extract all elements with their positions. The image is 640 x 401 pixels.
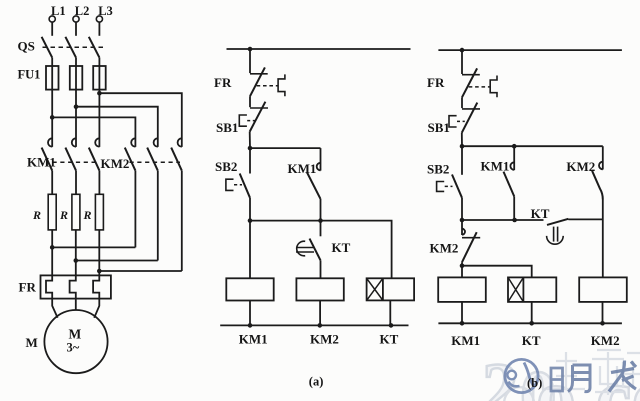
wire a SB2 to row xyxy=(249,198,251,221)
disconnect switch QS blade 3 xyxy=(89,37,100,58)
svg-text:KM2: KM2 xyxy=(430,241,459,256)
wire KM2 contact2 down xyxy=(157,171,159,261)
svg-text:(a): (a) xyxy=(309,374,324,388)
KT delayed-open contact (b) xyxy=(547,219,603,244)
wire b junction row xyxy=(462,219,544,221)
svg-text:KT: KT xyxy=(332,240,351,255)
node b-bus-1 xyxy=(460,321,465,326)
svg-text:KT: KT xyxy=(522,333,541,348)
node b-junction3 xyxy=(460,263,465,268)
fuse FU1 element 1 xyxy=(46,66,59,90)
node b-top xyxy=(460,48,465,53)
watermark gray hanzi ghosts xyxy=(547,350,640,395)
watermark blue hanzi chang xyxy=(609,361,636,392)
svg-text:R: R xyxy=(32,208,41,222)
node phase A branch xyxy=(50,115,55,120)
node resistor B bypass xyxy=(74,258,79,263)
wire b SB2 to row xyxy=(461,198,463,220)
wire KM2 contact3 down xyxy=(181,171,183,271)
terminal L1 xyxy=(49,4,65,22)
wire b KM1 coil to bus xyxy=(461,302,463,323)
start button SB2 NO (b) xyxy=(437,146,462,198)
svg-text:3~: 3~ xyxy=(67,341,80,355)
coil KM2 (a) xyxy=(296,278,343,300)
watermark gray zero bottom arc xyxy=(504,387,534,401)
node resistor A bypass xyxy=(50,245,55,250)
node a-bus-3 xyxy=(389,323,394,328)
node b-bus-3 xyxy=(600,321,605,326)
fuse FU1 element 2 xyxy=(70,66,83,90)
coil KT time relay (a) xyxy=(367,278,415,300)
svg-text:KM2: KM2 xyxy=(101,156,130,171)
section (b) top supply line xyxy=(438,49,622,51)
node b-seal-in top xyxy=(460,144,465,149)
KM2 auxiliary NO contact (b) xyxy=(592,146,603,199)
contactor KM1 main contact 1 xyxy=(42,138,53,170)
svg-text:(b): (b) xyxy=(527,376,542,390)
node b-row-km1 xyxy=(512,218,517,223)
contactor KM2 main contact 1 xyxy=(125,138,136,170)
svg-text:KM1: KM1 xyxy=(27,155,56,170)
coil KM1 (b) xyxy=(438,277,486,302)
section (b) bottom supply line xyxy=(438,322,622,324)
KM1 auxiliary NO contact (a) xyxy=(307,148,321,221)
KM2 linkage dashed line xyxy=(130,161,181,163)
wire branch A to KM2 contact 1 xyxy=(52,117,135,146)
svg-text:KM2: KM2 xyxy=(310,331,339,346)
wire b branch across to KM2 aux xyxy=(462,145,603,147)
stop button SB1 NC (b) xyxy=(449,103,480,133)
svg-text:M: M xyxy=(26,335,38,350)
svg-text:SB1: SB1 xyxy=(216,120,238,135)
FR heater phase B with wire xyxy=(70,230,76,310)
wire a KT coil to bus xyxy=(389,300,391,325)
node a-row-main xyxy=(248,218,253,223)
svg-text:SB1: SB1 xyxy=(428,120,450,135)
contactor KM1 main contact 3 xyxy=(89,138,100,170)
node phase B branch xyxy=(74,104,79,109)
wire bypass tie C xyxy=(99,270,182,272)
node b-km1-branch xyxy=(512,144,517,149)
KT delayed-close contact (a) xyxy=(296,221,321,261)
node b-row-main xyxy=(460,218,465,223)
wire b main drop to FR xyxy=(461,50,463,74)
svg-text:KM1: KM1 xyxy=(288,161,317,176)
section (a) bottom supply line xyxy=(220,324,408,326)
wire KM1 contact2 to resistor xyxy=(75,171,77,195)
wire b KM2 coil to bus xyxy=(602,302,604,323)
FR heater phase A with wire xyxy=(46,230,58,318)
coil KT time relay (b) xyxy=(508,277,556,302)
watermark logo circle xyxy=(505,359,538,392)
resistor R phase A xyxy=(48,194,56,230)
section (a) top supply line xyxy=(227,48,411,50)
svg-text:QS: QS xyxy=(18,38,35,53)
disconnect switch QS blade 1 xyxy=(42,37,53,58)
wire KM1 contact1 to resistor xyxy=(51,171,53,195)
svg-text:KT: KT xyxy=(380,331,399,346)
wire phase A through fuse xyxy=(51,58,53,147)
node a-seal-in top xyxy=(248,146,253,151)
svg-text:R: R xyxy=(83,208,92,222)
wire L1 drop xyxy=(51,22,53,36)
node a-bus-1 xyxy=(248,323,253,328)
watermark blue hanzi ri xyxy=(551,368,563,391)
node phase C branch xyxy=(97,91,102,96)
svg-text:M: M xyxy=(69,326,82,341)
svg-text:KM1: KM1 xyxy=(481,158,510,173)
wire a main to KM1 coil xyxy=(249,221,251,279)
node a-top xyxy=(248,47,253,52)
wire L2 drop xyxy=(75,22,77,36)
svg-text:FR: FR xyxy=(214,75,232,90)
contactor KM2 main contact 2 xyxy=(147,138,158,170)
node a-bus-2 xyxy=(318,323,323,328)
wire branch C to KM2 contact 3 xyxy=(99,93,181,147)
motor M circle xyxy=(44,310,107,373)
wire b KT coil to bus xyxy=(531,302,533,323)
svg-text:L2: L2 xyxy=(75,4,90,18)
contactor KM2 main contact 3 xyxy=(171,138,182,170)
wire b right vertical to KM2 coil xyxy=(602,200,604,278)
wire a KM1 coil to bus xyxy=(249,301,251,326)
svg-text:KM2: KM2 xyxy=(591,333,620,348)
wire bypass tie A xyxy=(52,246,135,248)
resistor R phase C xyxy=(95,194,103,230)
wire a SB1 to node xyxy=(249,132,251,149)
contactor KM1 main contact 2 xyxy=(65,138,76,170)
svg-text:L3: L3 xyxy=(98,4,113,18)
FR NC contact (a) xyxy=(250,67,285,96)
watermark blue hanzi yue xyxy=(568,365,590,392)
FR NC contact (b) xyxy=(462,68,497,97)
terminal L3 xyxy=(96,4,112,22)
disconnect switch QS blade 2 xyxy=(65,37,76,58)
svg-text:SB2: SB2 xyxy=(215,159,237,174)
KM1 linkage dashed line xyxy=(53,161,98,163)
svg-text:R: R xyxy=(59,208,68,222)
svg-text:L1: L1 xyxy=(51,4,66,18)
svg-text:FR: FR xyxy=(427,75,445,90)
node b-bus-2 xyxy=(529,321,534,326)
wire phase C through fuse xyxy=(98,58,100,147)
KM2 NC interlock contact (b) xyxy=(462,220,480,266)
svg-text:FR: FR xyxy=(19,279,37,294)
wire b FR to SB1 xyxy=(461,97,463,108)
svg-text:FU1: FU1 xyxy=(18,68,41,82)
wire a KT contact to KM2 coil xyxy=(320,260,322,278)
svg-text:KT: KT xyxy=(531,206,550,221)
coil KM1 (a) xyxy=(226,278,273,300)
QS linkage dashed line xyxy=(43,46,104,48)
svg-text:KM1: KM1 xyxy=(451,333,480,348)
node resistor C bypass xyxy=(97,269,102,274)
node a-row-km2 xyxy=(318,218,323,223)
wire a FR to SB1 xyxy=(249,96,251,107)
wire KM1 contact3 to resistor xyxy=(98,171,100,195)
wire a branch to KM1 aux xyxy=(250,147,321,149)
wire b SB1 to node xyxy=(461,133,463,147)
KM1 auxiliary NO contact (b) xyxy=(504,146,515,220)
thermal relay FR box xyxy=(41,275,111,298)
wire bypass tie B xyxy=(76,260,158,262)
svg-text:KM1: KM1 xyxy=(239,331,268,346)
fuse FU1 element 3 xyxy=(93,66,106,90)
wire a KM2 coil to bus xyxy=(319,301,321,326)
wire KM2 contact1 down xyxy=(134,171,136,248)
FR heater phase C with wire xyxy=(93,230,99,318)
resistor R phase B xyxy=(72,194,80,230)
stop button SB1 NC (a) xyxy=(239,102,268,132)
wire b junction3 to KT coil xyxy=(462,266,532,278)
wire b main to KM1 coil xyxy=(461,266,463,278)
watermark gray big text 2010.co xyxy=(482,348,640,401)
wire branch B to KM2 contact 2 xyxy=(76,107,158,147)
wire a main drop to FR xyxy=(249,49,251,73)
svg-text:KM2: KM2 xyxy=(566,159,595,174)
wire phase B through fuse xyxy=(75,58,77,147)
coil KM2 (b) xyxy=(579,277,627,302)
start button SB2 NO (a) xyxy=(226,148,250,198)
wire L3 drop xyxy=(98,22,100,36)
terminal L2 xyxy=(73,4,89,22)
wire a junction row to KT coil branch xyxy=(250,221,392,279)
svg-text:SB2: SB2 xyxy=(427,162,449,177)
